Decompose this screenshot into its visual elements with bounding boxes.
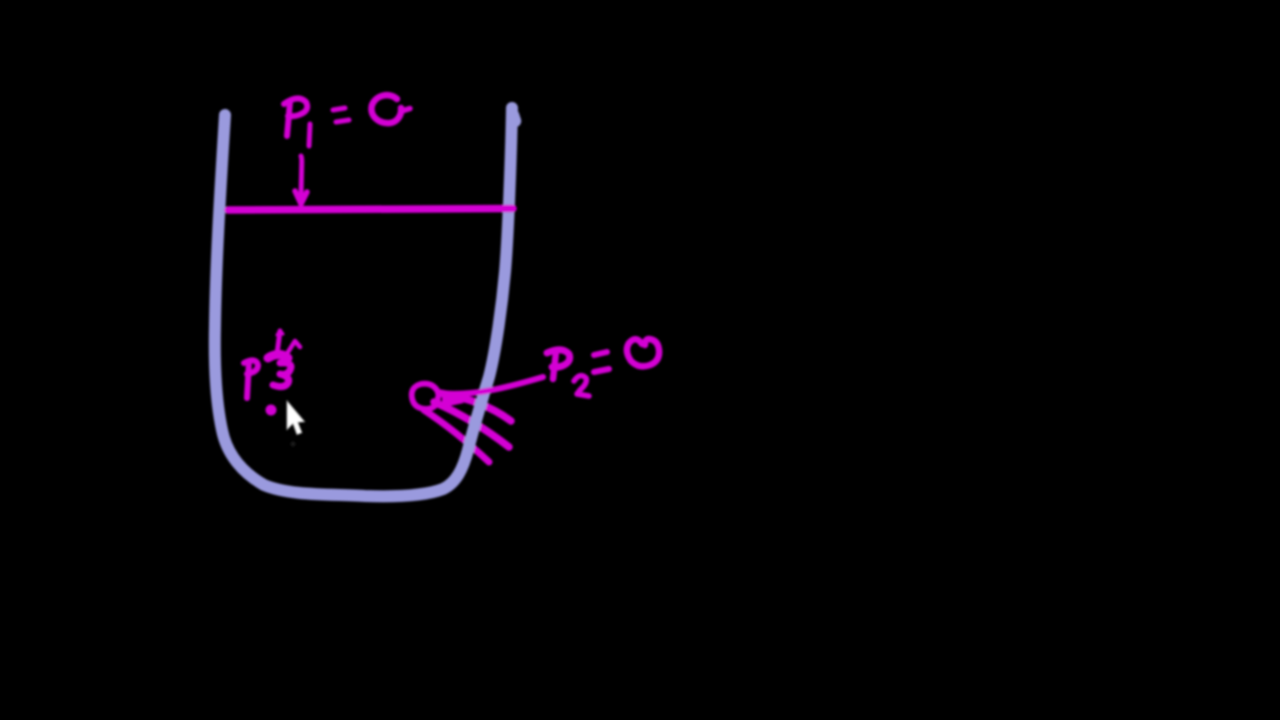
label P3 with scribble (inside container)	[244, 330, 300, 416]
jet B (middle water jet)	[434, 402, 509, 447]
jet A (top water jet)	[439, 393, 511, 421]
subscript 2 of P2	[574, 376, 589, 396]
vertical tick with arrow top	[277, 331, 280, 354]
connector line from hole to P2	[438, 377, 543, 394]
blob	[268, 355, 288, 359]
P of P2	[553, 352, 556, 379]
pen-start nub at right wall top	[513, 115, 515, 121]
jet wedge near hole	[442, 391, 464, 408]
zero	[371, 95, 401, 123]
zero (heart-shaped)	[627, 339, 659, 366]
label P1 = 0	[284, 95, 410, 146]
equals sign	[333, 108, 345, 110]
dot below P3	[266, 405, 277, 416]
container (bucket outline)	[215, 108, 512, 496]
arrow from P1 to water surface	[295, 156, 307, 204]
right flick	[288, 341, 300, 352]
P of P3	[247, 361, 249, 398]
water surface line	[228, 209, 513, 211]
3 squiggle	[273, 363, 291, 387]
mouse cursor	[287, 401, 305, 435]
jet C (lowest water jet from hole)	[424, 410, 489, 462]
cursor smudge	[291, 442, 296, 447]
P of P1	[287, 102, 290, 136]
label P2 = 0	[547, 339, 659, 396]
subscript 1 of P1	[309, 124, 310, 146]
hole circle on container wall	[412, 384, 438, 409]
equals sign	[594, 352, 607, 355]
